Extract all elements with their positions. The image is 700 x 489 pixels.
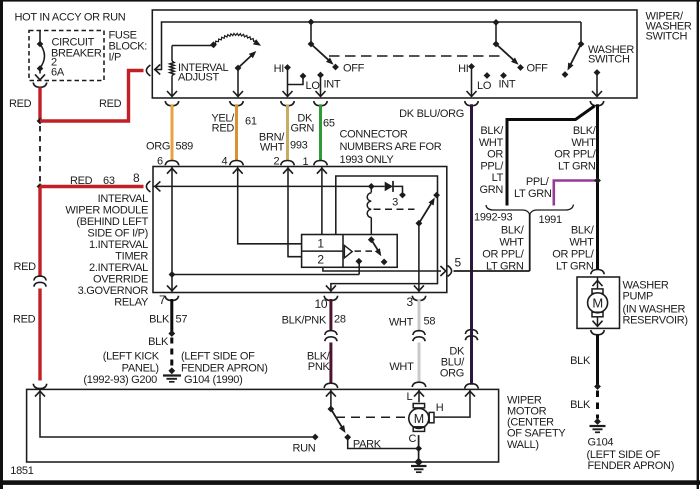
inline connector WHT bbox=[413, 331, 425, 335]
washer pump motor M1 bbox=[588, 277, 608, 327]
inline connector BLK/PNK bbox=[325, 331, 337, 335]
washer switch output contact bbox=[594, 69, 601, 96]
module pin 1 internal wire bbox=[317, 167, 327, 235]
svg-text:OFF: OFF bbox=[527, 63, 549, 75]
pin 10 wire path (inner loop) bbox=[326, 176, 438, 293]
contact HI (left bank) bbox=[284, 64, 303, 96]
contact RUN bbox=[312, 434, 319, 441]
svg-text:WHT: WHT bbox=[569, 236, 594, 248]
pot track end arrowhead bbox=[253, 39, 261, 46]
svg-text:M: M bbox=[592, 295, 603, 310]
wire branch to 1992-93 BLK/WHT bbox=[507, 106, 595, 206]
svg-text:G104 (1990): G104 (1990) bbox=[184, 374, 242, 386]
svg-text:589: 589 bbox=[176, 140, 194, 152]
svg-text:BLK/: BLK/ bbox=[573, 125, 597, 137]
svg-text:5: 5 bbox=[455, 255, 462, 269]
svg-text:SWITCH: SWITCH bbox=[646, 31, 688, 43]
circuit breaker 2 6A symbol bbox=[35, 31, 45, 80]
wire YEL/RED 61 bbox=[235, 104, 238, 161]
wiper mode switch arm (right) bbox=[493, 19, 519, 65]
svg-text:3.GOVERNOR: 3.GOVERNOR bbox=[78, 285, 149, 297]
junction washer wire / PPL bbox=[594, 177, 601, 184]
ground G104 right bbox=[590, 418, 606, 432]
junction C node bbox=[415, 445, 422, 452]
connector WHT at motor box bbox=[412, 382, 426, 387]
svg-text:BLK/: BLK/ bbox=[501, 224, 525, 236]
svg-text:PPL/: PPL/ bbox=[480, 160, 504, 172]
wire BLK dashed between junctions bbox=[39, 126, 41, 182]
wire BLK dashed to G200/G104 bbox=[170, 338, 173, 369]
svg-text:BLK: BLK bbox=[570, 355, 591, 367]
connector module pin 5 bbox=[448, 266, 452, 277]
svg-text:CONNECTOR: CONNECTOR bbox=[340, 128, 408, 140]
svg-text:INTERVAL: INTERVAL bbox=[98, 193, 149, 205]
connector washer output bbox=[590, 101, 604, 106]
wire RED 1851 internal bbox=[35, 389, 315, 437]
diode output terminal 3 bbox=[399, 192, 406, 199]
svg-text:1.INTERVAL: 1.INTERVAL bbox=[89, 239, 148, 251]
wire BRN/WHT 993 bbox=[286, 104, 289, 161]
svg-text:LT GRN: LT GRN bbox=[556, 260, 594, 272]
timer relay output contact bbox=[356, 258, 363, 275]
svg-text:61: 61 bbox=[245, 115, 257, 127]
wire PPL/LT GRN (1991) bbox=[554, 181, 595, 206]
svg-text:LT GRN: LT GRN bbox=[514, 188, 552, 200]
svg-text:C: C bbox=[409, 433, 417, 445]
junction BLK splice bbox=[168, 330, 175, 337]
wiper motor box bbox=[27, 389, 499, 462]
module pin 2 internal wire bbox=[283, 167, 302, 257]
circuit breaker box (fuse block) bbox=[29, 31, 104, 81]
svg-text:(BEHIND LEFT: (BEHIND LEFT bbox=[76, 216, 148, 228]
svg-text:7: 7 bbox=[159, 293, 166, 307]
svg-text:WHT: WHT bbox=[260, 142, 285, 154]
contact OFF (right) bbox=[517, 64, 524, 71]
svg-text:TIMER: TIMER bbox=[115, 251, 148, 263]
junction on RED wire bbox=[37, 118, 44, 125]
svg-text:BLK/PNK: BLK/PNK bbox=[282, 315, 327, 327]
connector module pin 7 bbox=[165, 296, 179, 301]
svg-text:INT: INT bbox=[499, 79, 516, 91]
arrow pin 1 exit bbox=[316, 91, 326, 96]
svg-text:OVERRIDE: OVERRIDE bbox=[93, 274, 148, 286]
interval wiper module box bbox=[153, 167, 447, 293]
svg-text:PANEL): PANEL) bbox=[122, 362, 159, 374]
svg-text:WHT: WHT bbox=[389, 316, 414, 328]
connector module pin 4 bbox=[230, 161, 244, 166]
junction BLK ground splice bbox=[594, 383, 601, 390]
interval adjust wiper arm bbox=[235, 51, 257, 96]
svg-text:M: M bbox=[414, 412, 424, 426]
wire WHT internal to L terminal bbox=[414, 389, 424, 402]
interval adjust pot track (wavy) bbox=[214, 33, 260, 44]
connector pin 2 bbox=[281, 101, 295, 106]
wire BLK washer pump ground bbox=[596, 335, 599, 385]
svg-text:SIDE OF I/P): SIDE OF I/P) bbox=[87, 228, 148, 240]
contact OFF (left) bbox=[332, 64, 339, 71]
year selection brace bbox=[486, 205, 574, 215]
svg-text:NUMBERS ARE FOR: NUMBERS ARE FOR bbox=[340, 141, 442, 153]
interval adjust resistor bbox=[170, 46, 213, 97]
svg-text:BLK: BLK bbox=[148, 336, 169, 348]
svg-text:2: 2 bbox=[317, 252, 324, 266]
svg-text:BREAKER: BREAKER bbox=[51, 47, 102, 59]
timer driver triangle bbox=[344, 245, 352, 258]
arrow pin 4 exit bbox=[233, 91, 243, 96]
svg-text:PUMP: PUMP bbox=[623, 290, 654, 302]
interval timer unit box 1/2 bbox=[302, 235, 398, 268]
svg-text:OR PPL/: OR PPL/ bbox=[482, 248, 525, 260]
wire DK BLU/ORG vertical bbox=[470, 104, 473, 384]
wire RED down left side bbox=[38, 187, 41, 278]
svg-text:RED: RED bbox=[14, 261, 37, 273]
svg-text:HI: HI bbox=[274, 63, 285, 75]
svg-text:OR PPL/: OR PPL/ bbox=[552, 248, 595, 260]
svg-text:WALL): WALL) bbox=[507, 439, 539, 451]
svg-text:GRN: GRN bbox=[290, 123, 314, 135]
inline connector DK BLU/ORG bbox=[465, 330, 477, 334]
washer pump box bbox=[577, 277, 620, 328]
wire RED 63 to interval module pin 8 bbox=[40, 185, 144, 188]
svg-text:ORG: ORG bbox=[440, 367, 464, 379]
connector at switch feed pin bbox=[146, 65, 150, 76]
svg-text:BLK/: BLK/ bbox=[480, 125, 504, 137]
washer switch arm bbox=[562, 22, 585, 78]
connector pin 6 bbox=[165, 101, 179, 106]
svg-text:OR PPL/: OR PPL/ bbox=[554, 149, 597, 161]
wire RED from circuit breaker down bbox=[38, 87, 41, 119]
wiper motor label bbox=[507, 394, 566, 450]
connector module pin 6 bbox=[165, 161, 179, 166]
label BLK/WHT OR PPL/LT GRN (1991) bbox=[554, 125, 597, 172]
svg-text:4: 4 bbox=[222, 155, 228, 167]
module pin 6/7 internal wire bbox=[167, 167, 177, 293]
connector BLK/PNK at motor box bbox=[324, 383, 338, 388]
timer relay switch arm bbox=[368, 236, 388, 265]
wire DK BLU/ORG internal to H terminal bbox=[434, 389, 475, 417]
governor relay switch bbox=[416, 192, 441, 227]
svg-text:1992-93: 1992-93 bbox=[474, 211, 512, 223]
svg-text:65: 65 bbox=[323, 117, 335, 129]
svg-text:RELAY: RELAY bbox=[114, 297, 149, 309]
svg-text:G104: G104 bbox=[588, 436, 614, 448]
connector module pin 1 bbox=[314, 161, 328, 166]
park switch arm bbox=[328, 406, 352, 441]
wire pin5 to DK BLU/ORG and 1991/92 merge bbox=[454, 270, 530, 272]
svg-text:FENDER APRON): FENDER APRON) bbox=[181, 363, 268, 375]
wire BLK/PNK lower bbox=[329, 343, 332, 384]
contact LO (left bank) bbox=[300, 73, 307, 80]
svg-text:6: 6 bbox=[157, 155, 163, 167]
connector module pin 2 bbox=[281, 161, 295, 166]
wire WHT 58 bbox=[418, 299, 421, 332]
svg-text:1: 1 bbox=[317, 236, 324, 250]
timer actuation dashed link bbox=[355, 250, 376, 252]
svg-text:28: 28 bbox=[334, 314, 346, 326]
svg-text:PPL/: PPL/ bbox=[526, 176, 550, 188]
contact HI (right bank) bbox=[468, 63, 475, 96]
svg-text:6A: 6A bbox=[51, 66, 65, 78]
svg-text:ORG: ORG bbox=[146, 140, 170, 152]
connector module pin 3 bbox=[412, 296, 426, 301]
svg-text:RESERVOIR): RESERVOIR) bbox=[623, 314, 688, 326]
svg-text:(1992-93) G200: (1992-93) G200 bbox=[83, 374, 157, 386]
contact INT (left bank) bbox=[317, 72, 324, 96]
contact INT (right bank) bbox=[500, 72, 507, 79]
svg-text:LT GRN: LT GRN bbox=[558, 160, 596, 172]
wire RED to wiper switch pin bbox=[40, 71, 144, 122]
svg-text:BLK: BLK bbox=[570, 399, 591, 411]
park mechanical dashed link bbox=[336, 416, 406, 418]
wire WHT lower bbox=[418, 343, 421, 383]
svg-text:HOT IN ACCY OR RUN: HOT IN ACCY OR RUN bbox=[15, 11, 126, 23]
label merged BLK/WHT OR PPL/LT GRN bbox=[482, 224, 525, 272]
module pin 8 internal wire bbox=[153, 181, 371, 191]
svg-text:SWITCH: SWITCH bbox=[588, 54, 630, 66]
arrow pin 6 exit bbox=[167, 91, 177, 96]
svg-text:HI: HI bbox=[458, 63, 469, 75]
switch feed wire internal bbox=[155, 22, 582, 75]
wire DK GRN 65 bbox=[319, 104, 322, 161]
svg-text:1851: 1851 bbox=[10, 465, 33, 477]
svg-text:RUN: RUN bbox=[293, 442, 316, 454]
inline connector on RED wire bbox=[34, 276, 46, 280]
svg-text:RED: RED bbox=[99, 98, 122, 110]
svg-text:2.INTERVAL: 2.INTERVAL bbox=[89, 262, 148, 274]
wire park contact to C terminal bbox=[348, 437, 419, 448]
svg-text:1991: 1991 bbox=[539, 214, 562, 226]
ground G200/G104 bbox=[163, 367, 181, 381]
junction pin 5 / pin 7 node bbox=[169, 271, 176, 278]
svg-text:LO: LO bbox=[306, 80, 321, 92]
wire ORG 589 bbox=[171, 104, 174, 161]
svg-text:WHT: WHT bbox=[389, 361, 414, 373]
arrow pin 2 exit bbox=[283, 91, 293, 96]
svg-text:993: 993 bbox=[290, 139, 308, 151]
svg-text:H: H bbox=[436, 402, 444, 414]
svg-text:OFF: OFF bbox=[343, 63, 365, 75]
svg-text:57: 57 bbox=[176, 313, 188, 325]
svg-text:OR: OR bbox=[487, 149, 503, 161]
arrow DK BLU/ORG exit bbox=[467, 91, 477, 96]
junction RED 63 node bbox=[37, 183, 44, 190]
svg-text:INT: INT bbox=[324, 79, 341, 91]
governor actuation dashed link bbox=[374, 208, 415, 210]
wire RED lower segment bbox=[38, 289, 41, 381]
module pin 4 internal wire bbox=[233, 167, 302, 244]
connector at circuit breaker output bbox=[33, 83, 47, 88]
svg-text:LT: LT bbox=[492, 172, 504, 184]
wire BLK/PNK 28 bbox=[329, 299, 332, 331]
ground wiper motor case bbox=[411, 458, 427, 472]
svg-text:LO: LO bbox=[477, 80, 492, 92]
svg-text:RED: RED bbox=[13, 313, 36, 325]
connector DK BLU/ORG bbox=[465, 101, 479, 106]
diode CR1 bbox=[371, 181, 402, 192]
svg-text:3: 3 bbox=[392, 196, 398, 208]
label BLK/WHT OR PPL/LT GRN (1992-93) bbox=[479, 125, 504, 196]
connector at wiper motor box RED entry bbox=[33, 384, 47, 389]
svg-text:BLK/: BLK/ bbox=[571, 224, 595, 236]
junction coil/diode node bbox=[368, 183, 375, 190]
wire BLK 57 from pin 7 bbox=[170, 299, 173, 332]
svg-text:LT GRN: LT GRN bbox=[486, 260, 524, 272]
svg-text:PNK: PNK bbox=[308, 361, 331, 373]
svg-text:RED: RED bbox=[70, 175, 93, 187]
svg-text:WIPER MODULE: WIPER MODULE bbox=[65, 205, 148, 217]
svg-text:63: 63 bbox=[103, 175, 115, 187]
svg-text:(LEFT KICK: (LEFT KICK bbox=[103, 350, 160, 362]
svg-text:(LEFT SIDE OF: (LEFT SIDE OF bbox=[181, 350, 255, 362]
interval adjust pot track node bbox=[210, 41, 217, 48]
connector pin 4 bbox=[230, 101, 244, 106]
svg-text:RED: RED bbox=[9, 98, 32, 110]
svg-text:58: 58 bbox=[424, 315, 436, 327]
wire BLK dashed to G104 bbox=[596, 391, 599, 419]
wiper motor M2 bbox=[409, 404, 434, 432]
svg-text:1993 ONLY: 1993 ONLY bbox=[340, 154, 395, 166]
svg-text:GRN: GRN bbox=[479, 184, 503, 196]
connector pin 1 bbox=[314, 101, 328, 106]
arrow washer output exit bbox=[592, 91, 602, 96]
svg-text:2: 2 bbox=[274, 155, 280, 167]
timer unit bottom tie bbox=[323, 267, 359, 271]
mechanical linkage dashed bbox=[329, 55, 503, 57]
svg-text:WHT: WHT bbox=[479, 137, 504, 149]
svg-text:WHT: WHT bbox=[499, 236, 524, 248]
svg-text:8: 8 bbox=[133, 171, 140, 185]
connector module pin 10 bbox=[324, 296, 338, 301]
connector at washer pump bbox=[591, 270, 605, 275]
svg-text:RED: RED bbox=[212, 122, 235, 134]
svg-text:I/P: I/P bbox=[109, 51, 122, 63]
wire BLK washer switch down bbox=[596, 104, 599, 269]
relay coil bbox=[367, 186, 371, 234]
wiper mode switch arm (left) bbox=[308, 19, 334, 65]
svg-text:ADJUST: ADJUST bbox=[178, 72, 220, 84]
connector at module pin 8 bbox=[146, 181, 150, 192]
svg-text:BLK: BLK bbox=[149, 313, 170, 325]
module pin 5 wire bbox=[172, 266, 446, 276]
svg-text:L: L bbox=[407, 391, 413, 403]
wire BLK/PNK internal to park switch bbox=[326, 389, 336, 409]
label BLK/WHT OR PPL/LT GRN (pump) bbox=[552, 224, 595, 272]
wiper/washer switch box bbox=[152, 10, 637, 98]
svg-text:DK BLU/ORG: DK BLU/ORG bbox=[399, 108, 464, 120]
interval wiper module description bbox=[65, 193, 149, 309]
contact LO (right bank) bbox=[484, 72, 491, 79]
module pin 3 internal wire bbox=[414, 223, 424, 292]
svg-text:WHT: WHT bbox=[571, 137, 596, 149]
connector DK BLU/ORG at motor box bbox=[465, 384, 479, 389]
wire C terminal to ground bbox=[418, 435, 420, 462]
connector below washer pump bbox=[591, 330, 605, 335]
svg-text:FENDER APRON): FENDER APRON) bbox=[588, 460, 675, 472]
wire merged BLK/WHT to DK BLU/ORG bbox=[529, 214, 531, 271]
